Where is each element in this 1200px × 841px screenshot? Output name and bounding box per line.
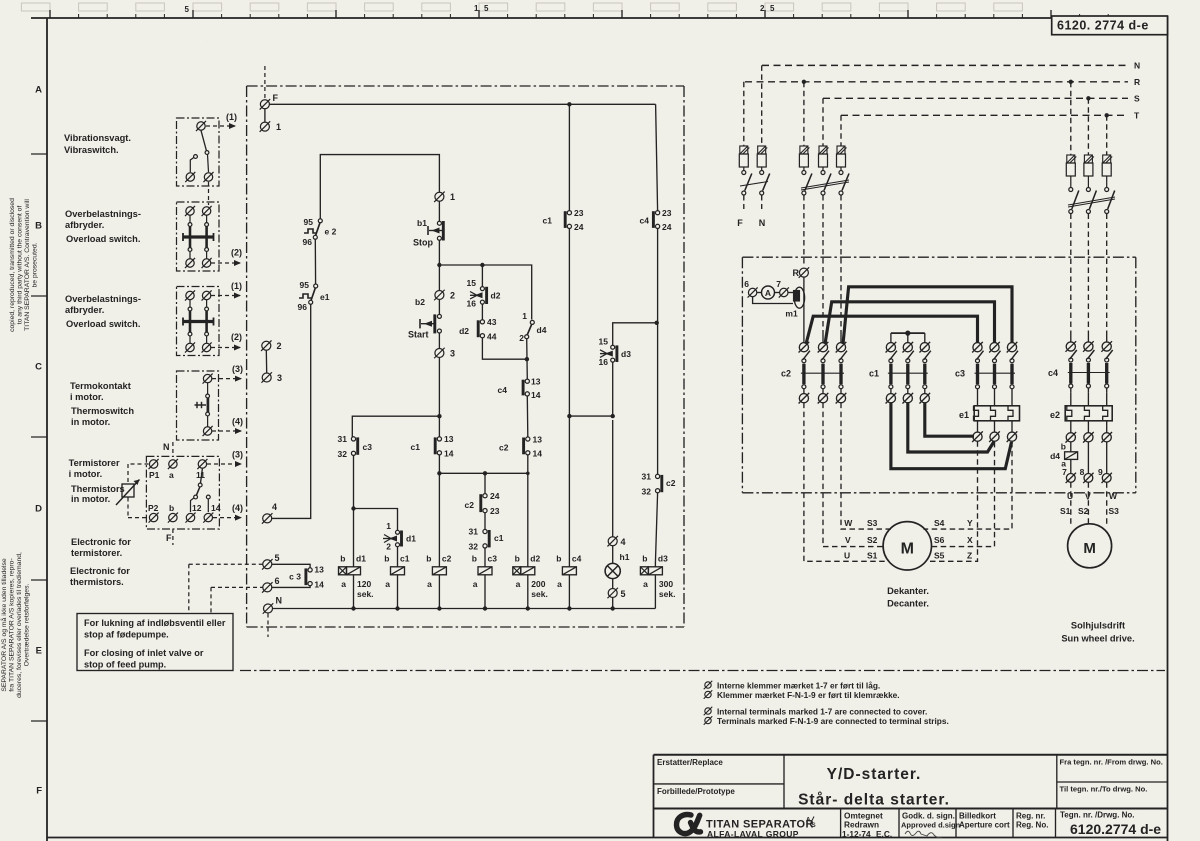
svg-text:to any third party without the: to any third party without the consent o…: [17, 206, 24, 325]
terminal 4: [262, 502, 277, 524]
timer contact d1 1-2: [383, 521, 416, 552]
svg-text:Forbillede/Prototype: Forbillede/Prototype: [657, 787, 735, 796]
svg-text:E.C.: E.C.: [876, 829, 892, 839]
wire rail4: [439, 471, 529, 475]
svg-text:Sun wheel drive.: Sun wheel drive.: [1061, 634, 1134, 644]
svg-text:For closing of inlet valve or: For closing of inlet valve or: [84, 648, 204, 658]
terminal arrow (4) from thermistor relay: [213, 503, 243, 521]
control section dash-dot boundary: [247, 86, 684, 627]
svg-text:14: 14: [533, 449, 543, 459]
svg-text:1: 1: [522, 311, 527, 321]
junction on F-rail at c1 hold column: [567, 102, 571, 106]
svg-text:a: a: [341, 579, 346, 589]
terminal arrow (3) from thermistor relay: [207, 450, 243, 468]
svg-text:Termokontakt: Termokontakt: [70, 381, 131, 391]
main fuse group c4 phase T: [1102, 115, 1115, 335]
svg-text:24: 24: [490, 491, 500, 501]
svg-text:a: a: [643, 579, 648, 589]
node N stub above thermistor box: [163, 442, 173, 456]
svg-text:Termistorer: Termistorer: [69, 458, 120, 468]
svg-text:9: 9: [1098, 467, 1103, 477]
svg-text:d4: d4: [537, 325, 547, 335]
svg-text:F: F: [166, 533, 172, 543]
svg-text:(3): (3): [232, 450, 243, 460]
svg-text:5: 5: [185, 5, 190, 14]
svg-text:7: 7: [776, 279, 781, 289]
svg-text:stop af fødepumpe.: stop af fødepumpe.: [84, 630, 169, 640]
main contactor c3 (delta): [955, 342, 1018, 394]
wire c3 contact to d1 coil: [353, 455, 355, 563]
switch link c2 group: [801, 180, 849, 190]
svg-text:Står- delta starter.: Står- delta starter.: [798, 792, 950, 809]
svg-text:d1: d1: [406, 534, 416, 544]
wire R through transformer to c2: [803, 277, 805, 343]
terminal 6: [262, 576, 279, 593]
svg-text:B: B: [35, 221, 42, 232]
contact c2 31-32: [642, 472, 676, 497]
svg-text:Godk. d. sign.: Godk. d. sign.: [902, 812, 955, 821]
wire d3 branch top: [612, 362, 614, 416]
timer coil d3 (300 sek): [640, 554, 675, 609]
delta wire S to c3-2 (thick): [825, 302, 995, 344]
timer coil d2 (200 sek): [513, 554, 548, 609]
svg-text:a: a: [557, 579, 562, 589]
delta wire T to c3-3 (thick): [843, 287, 1012, 344]
ammeter m1 circuit: [744, 279, 804, 319]
svg-text:6: 6: [744, 279, 749, 289]
svg-text:c3: c3: [488, 554, 498, 564]
terminals below e2: [1065, 421, 1112, 443]
wire dashed terminal5 to annotation: [189, 564, 263, 613]
svg-text:2: 2: [760, 4, 765, 13]
svg-text:44: 44: [487, 332, 497, 342]
terminal 4 (lamp): [607, 536, 625, 547]
svg-text:d2: d2: [459, 326, 469, 336]
svg-text:Thermistors: Thermistors: [71, 484, 125, 494]
svg-text:a: a: [473, 579, 478, 589]
contact d2 43-44: [459, 304, 497, 341]
label Overbelastnings-afbryder / Overload switch 2: [65, 294, 141, 329]
wire stop to node: [438, 240, 440, 290]
svg-text:C: C: [35, 362, 42, 373]
wire c2 contact to d2 coil: [527, 455, 529, 563]
svg-text:N: N: [276, 596, 283, 606]
svg-text:F: F: [273, 93, 279, 103]
svg-text:S3: S3: [867, 518, 878, 528]
contact c1 31-32 (below c2): [469, 513, 504, 552]
svg-text:c4: c4: [640, 216, 650, 226]
terminal N: [263, 596, 282, 614]
terminals below e1: [972, 421, 1017, 442]
terminal arrow (1) from vibraswitch: [206, 112, 237, 129]
wire jumper 2-3: [265, 350, 267, 373]
junction rail3: [437, 414, 441, 418]
svg-text:b: b: [642, 554, 647, 564]
svg-text:Solhjulsdrift: Solhjulsdrift: [1071, 621, 1125, 631]
svg-text:14: 14: [314, 580, 324, 590]
svg-text:120: 120: [357, 579, 371, 589]
svg-text:P1: P1: [149, 470, 160, 480]
wire dashed link vibraswitch to overload box: [208, 182, 210, 205]
terminals 7 8 9: [1062, 467, 1112, 483]
svg-text:2: 2: [277, 341, 282, 351]
svg-text:1: 1: [474, 4, 479, 13]
label Overbelastnings-afbryder / Overload switch 1: [65, 209, 141, 244]
supply stub F (dashed): [264, 66, 266, 100]
signal lamp h1: [605, 546, 630, 589]
svg-text:d2: d2: [491, 291, 501, 301]
timer contact d2 15-16: [467, 265, 501, 309]
svg-text:3: 3: [450, 349, 455, 359]
svg-text:Fra tegn. nr. /From drwg. No.: Fra tegn. nr. /From drwg. No.: [1060, 758, 1163, 767]
svg-text:S3: S3: [1109, 506, 1120, 516]
svg-text:i motor.: i motor.: [70, 392, 104, 402]
main fuse group c4 phase S: [1084, 98, 1097, 335]
star point bridge on c1: [891, 331, 925, 343]
contact c2 13-14 (hold): [499, 435, 542, 459]
svg-text:b: b: [426, 554, 431, 564]
svg-text:6120.2774 d-e: 6120.2774 d-e: [1070, 821, 1161, 837]
svg-text:c4: c4: [1048, 368, 1058, 378]
wire c1 hold column: [568, 104, 570, 210]
svg-text:m1: m1: [785, 309, 798, 319]
thermistor relay contact 11-12-14: [185, 469, 220, 523]
svg-text:W: W: [844, 518, 853, 528]
svg-text:d3: d3: [621, 349, 631, 359]
svg-text:c4: c4: [498, 385, 508, 395]
cabinet bottom dash-dot line: [240, 670, 1165, 672]
switch link c4 group: [1068, 197, 1115, 207]
motor M decanter: [883, 522, 931, 570]
wire F to terminal 1: [264, 109, 266, 122]
wire c1 contact to c2 coil: [438, 455, 440, 563]
svg-text:a: a: [169, 470, 174, 480]
label Solhjulsdrift / Sun wheel drive: [1061, 621, 1134, 644]
vibraswitch box: [177, 118, 220, 186]
phase line N: [762, 61, 1140, 71]
svg-text:8: 8: [1080, 467, 1085, 477]
svg-text:13: 13: [533, 435, 543, 445]
motor leads decanter U V W: [804, 403, 892, 562]
svg-text:stop of feed pump.: stop of feed pump.: [84, 660, 166, 670]
contact c3 31-32: [338, 434, 373, 459]
thermistor terminal box: [146, 456, 219, 529]
wire hold branch node-b1 to d2/d4: [442, 263, 532, 320]
svg-text:Overbelastnings-: Overbelastnings-: [65, 294, 141, 304]
junction node below b1: [437, 263, 441, 267]
svg-text:14: 14: [211, 503, 221, 513]
svg-text:U: U: [844, 550, 850, 560]
svg-text:16: 16: [599, 357, 609, 367]
svg-text:13: 13: [531, 377, 541, 387]
svg-text:c2: c2: [465, 500, 475, 510]
svg-text:afbryder.: afbryder.: [65, 305, 104, 315]
svg-text:S: S: [812, 822, 816, 829]
svg-text:(1): (1): [226, 112, 237, 122]
contactor coil c3: [472, 554, 497, 609]
svg-text:Internal terminals marked 1-: Internal terminals marked 1-7 are connec…: [717, 707, 927, 717]
svg-text:fra TITAN SEPARATOR A/S kopier: fra TITAN SEPARATOR A/S kopieres, repro-: [9, 558, 16, 691]
svg-text:e2: e2: [1050, 410, 1060, 420]
svg-text:Reg. nr.: Reg. nr.: [1016, 812, 1045, 821]
wire start to terminal 3: [438, 333, 440, 349]
svg-text:Vibraswitch.: Vibraswitch.: [64, 145, 119, 155]
terminal arrow (1) from overload switch 2: [211, 281, 242, 299]
junction d1 branch: [351, 506, 355, 510]
svg-text:(3): (3): [232, 364, 243, 374]
drawing number box (top right): [1052, 16, 1168, 35]
svg-text:Overbelastnings-: Overbelastnings-: [65, 209, 141, 219]
motor leads decanter X Y Z: [923, 441, 1012, 561]
svg-text:96: 96: [298, 302, 308, 312]
svg-text:c1: c1: [494, 533, 504, 543]
contact c2 24-23: [465, 473, 500, 516]
svg-text:5: 5: [484, 4, 489, 13]
svg-text:c1: c1: [543, 216, 553, 226]
wire c3 14 to terminal 6: [272, 586, 310, 588]
svg-text:1-12-74: 1-12-74: [842, 829, 871, 839]
svg-text:24: 24: [574, 222, 584, 232]
svg-text:1: 1: [450, 192, 455, 202]
svg-text:N: N: [759, 218, 766, 228]
terminal 5: [262, 553, 279, 570]
wire branch to lamp h1: [569, 414, 615, 418]
svg-text:in motor.: in motor.: [71, 417, 110, 427]
terminal R: [793, 267, 810, 278]
margin copyright text (danish): [0, 552, 31, 698]
svg-text:Erstatter/Replace: Erstatter/Replace: [657, 758, 723, 767]
svg-text:Approved d.sign: Approved d.sign: [901, 821, 961, 830]
terminal notes (english): [704, 707, 949, 727]
svg-text:Electronic for: Electronic for: [70, 566, 130, 576]
svg-text:afbryder.: afbryder.: [65, 220, 104, 230]
wire terminal3 down to rail3: [438, 358, 440, 438]
contactor coil c2: [426, 554, 451, 609]
svg-text:(2): (2): [231, 248, 242, 258]
svg-text:Interne klemmer mærket 1-7: Interne klemmer mærket 1-7 er ført til l…: [717, 681, 880, 691]
changeover contact d4 1-2: [519, 311, 546, 343]
svg-text:6: 6: [275, 576, 280, 586]
svg-text:d4: d4: [1050, 451, 1060, 461]
svg-text:ALFA-LAVAL GROUP: ALFA-LAVAL GROUP: [707, 829, 799, 839]
svg-text:b: b: [472, 554, 477, 564]
main contactor c4 (sun wheel): [1048, 341, 1113, 393]
svg-text:e1: e1: [959, 410, 969, 420]
wire d1 contact to c1 coil: [397, 547, 399, 563]
svg-text:c2: c2: [499, 443, 509, 453]
svg-text:X: X: [967, 535, 973, 545]
control fuse F: [737, 82, 752, 228]
svg-text:31: 31: [642, 472, 652, 482]
svg-text:c1: c1: [869, 369, 879, 379]
labels U V W (sun wheel): [1067, 491, 1118, 502]
label Termistorer i motor / Thermistors in motor: [69, 458, 125, 504]
svg-text:a: a: [385, 579, 390, 589]
svg-text:D: D: [35, 504, 42, 515]
svg-text:31: 31: [469, 527, 479, 537]
main contactor c2: [781, 342, 847, 394]
thermistor box terminals P1 a 11: [149, 459, 208, 480]
supply stub N (dashed): [267, 614, 269, 638]
svg-text:Overtrædelse retsforfølges.: Overtrædelse retsforfølges.: [24, 584, 31, 667]
terminal 5 (lamp): [607, 588, 625, 599]
svg-text:c1: c1: [411, 442, 421, 452]
motor M sun wheel drive: [1068, 524, 1112, 568]
svg-text:S5: S5: [934, 550, 945, 560]
terminal arrow (2) from overload switch 2: [211, 332, 242, 351]
drawing number (title block): [1070, 821, 1161, 837]
svg-text:c2: c2: [442, 554, 452, 564]
svg-text:Electronic for: Electronic for: [71, 537, 131, 547]
svg-text:2: 2: [386, 542, 391, 552]
svg-text:b1: b1: [417, 218, 427, 228]
contact c1 23-24 (hold): [543, 208, 584, 232]
svg-text:43: 43: [487, 317, 497, 327]
wire lamp to N rail: [612, 598, 614, 609]
terminal arrow (3) from thermoswitch: [212, 364, 243, 382]
svg-text:23: 23: [662, 208, 672, 218]
wire d2 44 to junction row: [482, 338, 526, 359]
title block labels: [657, 758, 1163, 840]
svg-text:e1: e1: [320, 292, 330, 302]
svg-text:c4: c4: [572, 554, 582, 564]
wire dashed terminal6 to annotation: [211, 587, 263, 613]
svg-text:(4): (4): [232, 417, 243, 427]
svg-text:F: F: [737, 218, 743, 228]
svg-text:Vibrationsvagt.: Vibrationsvagt.: [64, 133, 131, 143]
svg-text:Thermoswitch: Thermoswitch: [71, 406, 134, 416]
svg-text:5: 5: [275, 553, 280, 563]
svg-text:Stop: Stop: [413, 238, 433, 248]
terminal 2: [261, 340, 281, 351]
overload switch box e2 (external): [177, 287, 220, 356]
svg-text:24: 24: [662, 222, 672, 232]
terminals below c1: [886, 393, 931, 404]
junction rail4 left: [437, 471, 441, 475]
svg-text:c3: c3: [955, 369, 965, 379]
svg-text:Tegn. nr. /Drwg. No.: Tegn. nr. /Drwg. No.: [1060, 811, 1135, 820]
svg-text:95: 95: [300, 280, 310, 290]
svg-text:T: T: [1134, 111, 1140, 121]
contact c4 23-24: [640, 208, 672, 232]
phase line T: [841, 111, 1140, 121]
svg-text:c 3: c 3: [289, 572, 301, 582]
svg-text:in motor.: in motor.: [71, 494, 110, 504]
wire d3 contact to c4 column: [613, 323, 657, 345]
svg-text:14: 14: [444, 449, 454, 459]
svg-text:V: V: [845, 535, 851, 545]
contact c3 13-14 (terminals 5-6): [289, 565, 324, 590]
svg-text:Reg. No.: Reg. No.: [1016, 821, 1048, 830]
approval signature (handwritten): [905, 831, 942, 837]
svg-text:Aperture cort: Aperture cort: [959, 821, 1010, 830]
svg-text:b: b: [1061, 442, 1066, 452]
svg-text:S4: S4: [934, 518, 945, 528]
wire c1 31-32 to c3 coil: [484, 548, 486, 563]
svg-text:TITAN SEPARATOR A/S. Contraven: TITAN SEPARATOR A/S. Contravention will: [24, 199, 31, 331]
svg-text:R: R: [1134, 77, 1140, 87]
svg-text:5: 5: [770, 4, 775, 13]
wire N rail: [273, 606, 656, 610]
wire drops to c4: [1071, 335, 1107, 342]
wire S T drops to c2: [823, 335, 841, 343]
thermoswitch contact: [195, 374, 213, 436]
svg-text:Start: Start: [408, 330, 429, 340]
contact c1 13-14 (start chain): [411, 434, 454, 459]
title text Y/D-starter: [798, 766, 950, 809]
svg-text:Z: Z: [967, 550, 972, 560]
svg-text:95: 95: [304, 217, 314, 227]
svg-text:b2: b2: [415, 297, 425, 307]
terminal 3: [261, 372, 282, 383]
svg-text:A: A: [765, 288, 771, 298]
svg-text:300: 300: [659, 579, 673, 589]
svg-text:A: A: [806, 817, 811, 824]
svg-text:15: 15: [599, 337, 609, 347]
star bridge wire c1 to e1 pole3 (thick): [891, 403, 1012, 469]
label Vibrationsvagt / Vibraswitch: [64, 133, 131, 155]
svg-text:Terminals marked F-N-1-9 ar: Terminals marked F-N-1-9 are connected t…: [717, 716, 949, 726]
wire c1 hold contact to c4 coil: [567, 229, 571, 564]
svg-text:96: 96: [303, 237, 313, 247]
svg-text:2: 2: [519, 333, 524, 343]
svg-text:b: b: [556, 554, 561, 564]
svg-text:15: 15: [467, 278, 477, 288]
svg-text:32: 32: [642, 487, 652, 497]
main fuse group c2 phase R: [799, 82, 812, 265]
svg-text:b: b: [515, 554, 520, 564]
wire rail e2-b1: [320, 155, 439, 219]
wire terminal2 to start button: [438, 300, 440, 315]
svg-text:S2: S2: [867, 535, 878, 545]
svg-text:d1: d1: [356, 554, 366, 564]
svg-text:Overload switch.: Overload switch.: [66, 234, 140, 244]
svg-text:23: 23: [574, 208, 584, 218]
svg-text:(4): (4): [232, 503, 243, 513]
svg-text:4: 4: [621, 537, 626, 547]
svg-text:c1: c1: [400, 554, 410, 564]
svg-text:200: 200: [531, 579, 545, 589]
wire c4/d3 main column: [656, 104, 658, 210]
annotation box inlet valve / feed pump: [77, 614, 233, 671]
svg-text:F: F: [36, 786, 42, 797]
main fuse group c4 phase R: [1066, 82, 1079, 335]
svg-text:(1): (1): [231, 281, 242, 291]
svg-text:S1: S1: [1060, 506, 1071, 516]
terminals below c2: [799, 393, 847, 404]
svg-text:b: b: [340, 554, 345, 564]
svg-text:h1: h1: [620, 552, 630, 562]
svg-text:S2: S2: [1078, 506, 1089, 516]
svg-text:M: M: [1083, 540, 1096, 557]
svg-text:sek.: sek.: [659, 589, 676, 599]
node F stub below thermistor box: [166, 529, 173, 545]
main fuse group c2 phase S: [819, 98, 832, 335]
terminal F: [260, 93, 279, 110]
svg-text:Overload switch.: Overload switch.: [66, 319, 140, 329]
svg-text:SEPARATOR A/S og må ikke uden: SEPARATOR A/S og må ikke uden tilladelse: [0, 558, 8, 692]
svg-text:6120. 2774 d-e: 6120. 2774 d-e: [1057, 19, 1149, 33]
timer coil d1 (120 sek): [339, 554, 374, 609]
svg-text:16: 16: [467, 299, 477, 309]
wire d4 to c4 contact: [525, 339, 529, 379]
star bridge wire c1 to e1 pole1 (thick): [925, 403, 974, 437]
label Electronic for termistorer / thermistors: [70, 537, 131, 587]
wire terminal1 to stop button: [438, 201, 440, 221]
overload relay e1: [959, 394, 1020, 421]
svg-text:E: E: [36, 646, 42, 657]
svg-text:1: 1: [276, 122, 281, 132]
